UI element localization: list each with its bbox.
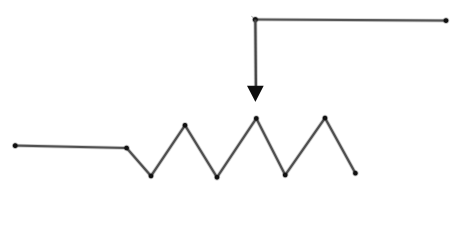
wire: top horizontal core stroke (255, 20, 446, 21)
vertex dot: valley 2 (214, 174, 220, 180)
vertex dot: valley 1 (148, 173, 154, 179)
vertex dot: peak 3 (322, 115, 328, 121)
arrowhead: wiper arrow pointing to resistor (247, 86, 264, 102)
wire: wiper vertical core stroke (254, 20, 257, 88)
wire: top horizontal from junction to right terminal (soft underlay) (255, 20, 446, 21)
terminal dot: right end of resistor (352, 170, 358, 176)
terminal dot: left end of lead (12, 142, 19, 149)
resistor R1: zigzag body core stroke (127, 118, 356, 177)
vertex dot: lead/zigzag joint (123, 145, 129, 151)
resistor R1: zigzag body (soft underlay) (127, 118, 356, 177)
vertex dot: valley 3 (282, 172, 288, 178)
vertex dot: peak 2 (253, 115, 259, 121)
node junction: corner of top wire and wiper (252, 16, 259, 23)
wire: resistor left lead (soft underlay) (15, 146, 126, 148)
wire: resistor left lead core stroke (15, 146, 126, 148)
wire: wiper vertical segment (soft underlay) (253, 20, 258, 88)
terminal dot: right end of top wire (443, 17, 450, 24)
vertex dot: peak 1 (182, 122, 188, 128)
pen overshoot tick at junction (252, 16, 254, 18)
